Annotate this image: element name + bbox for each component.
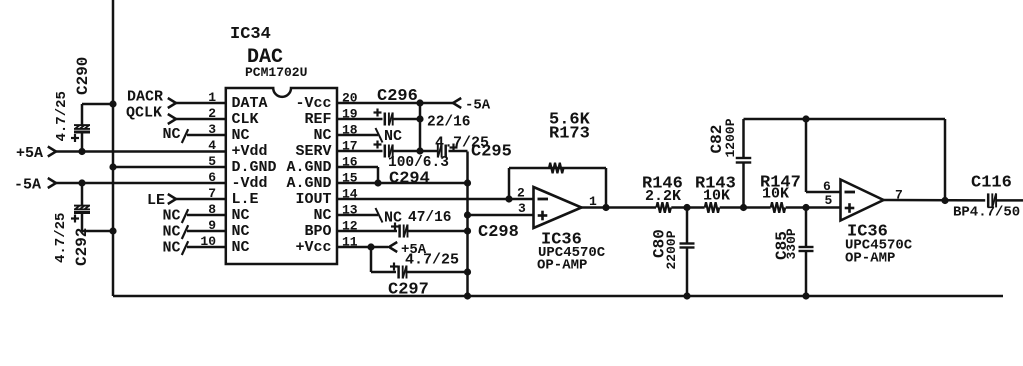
svg-text:CLK: CLK — [232, 111, 259, 128]
svg-text:A.GND: A.GND — [286, 159, 331, 176]
svg-text:L.E: L.E — [232, 191, 259, 208]
svg-text:C292: C292 — [73, 228, 91, 266]
svg-text:330P: 330P — [784, 228, 799, 259]
svg-text:IOUT: IOUT — [295, 191, 331, 208]
svg-text:5: 5 — [825, 193, 833, 208]
svg-text:7: 7 — [895, 188, 903, 203]
svg-text:D.GND: D.GND — [232, 159, 277, 176]
svg-text:NC: NC — [232, 223, 250, 240]
svg-text:A.GND: A.GND — [286, 175, 331, 192]
svg-text:C295: C295 — [471, 143, 512, 162]
svg-text:+Vcc: +Vcc — [295, 239, 331, 256]
svg-text:2: 2 — [208, 106, 216, 121]
svg-text:C294: C294 — [389, 170, 430, 189]
svg-text:DATA: DATA — [232, 95, 268, 112]
svg-text:10K: 10K — [762, 186, 789, 203]
svg-text:4.7/25: 4.7/25 — [54, 91, 70, 141]
svg-text:22/16: 22/16 — [427, 115, 471, 131]
svg-text:DACR: DACR — [127, 89, 163, 106]
svg-text:8: 8 — [208, 202, 216, 217]
svg-text:C296: C296 — [377, 87, 418, 106]
svg-text:OP-AMP: OP-AMP — [537, 258, 587, 274]
svg-text:6: 6 — [823, 179, 831, 194]
svg-text:BP4.7/50: BP4.7/50 — [953, 205, 1020, 221]
svg-text:-5A: -5A — [14, 177, 41, 194]
svg-text:+5A: +5A — [16, 145, 43, 162]
svg-text:NC: NC — [232, 207, 250, 224]
svg-text:OP-AMP: OP-AMP — [845, 251, 895, 267]
svg-text:NC: NC — [384, 128, 402, 145]
svg-text:NC: NC — [163, 240, 181, 257]
svg-text:BPO: BPO — [304, 223, 331, 240]
svg-text:-Vcc: -Vcc — [295, 95, 331, 112]
svg-text:NC: NC — [163, 208, 181, 225]
svg-text:6: 6 — [208, 170, 216, 185]
svg-text:NC: NC — [163, 126, 181, 143]
svg-text:NC: NC — [163, 224, 181, 241]
svg-text:3: 3 — [208, 122, 216, 137]
svg-text:NC: NC — [313, 207, 331, 224]
svg-text:C297: C297 — [388, 281, 429, 300]
svg-text:5: 5 — [208, 154, 216, 169]
svg-text:1: 1 — [208, 90, 216, 105]
svg-text:C290: C290 — [74, 57, 92, 95]
svg-text:4: 4 — [208, 138, 216, 153]
svg-text:4.7/25: 4.7/25 — [53, 213, 69, 263]
svg-text:2: 2 — [517, 186, 525, 201]
svg-text:2.2K: 2.2K — [645, 188, 681, 205]
svg-text:REF: REF — [304, 111, 331, 128]
svg-text:1200P: 1200P — [723, 118, 738, 157]
svg-text:4.7/25: 4.7/25 — [405, 252, 459, 269]
svg-text:SERV: SERV — [295, 143, 331, 160]
svg-text:10: 10 — [200, 234, 216, 249]
svg-text:+Vdd: +Vdd — [232, 143, 268, 160]
svg-text:NC: NC — [313, 127, 331, 144]
svg-text:7: 7 — [208, 186, 216, 201]
svg-text:C298: C298 — [478, 223, 519, 242]
svg-text:-Vdd: -Vdd — [232, 175, 268, 192]
svg-text:-5A: -5A — [465, 98, 491, 114]
svg-text:NC: NC — [232, 239, 250, 256]
svg-text:NC: NC — [232, 127, 250, 144]
svg-text:9: 9 — [208, 218, 216, 233]
svg-text:47/16: 47/16 — [408, 210, 452, 226]
svg-text:2200P: 2200P — [664, 230, 679, 269]
svg-text:LE: LE — [147, 192, 165, 209]
svg-text:NC: NC — [384, 210, 402, 227]
svg-text:R173: R173 — [549, 125, 590, 144]
svg-text:IC34: IC34 — [230, 25, 271, 44]
svg-text:C116: C116 — [971, 174, 1012, 193]
svg-text:QCLK: QCLK — [126, 105, 162, 122]
svg-text:PCM1702U: PCM1702U — [245, 65, 307, 80]
svg-text:10K: 10K — [703, 188, 730, 205]
